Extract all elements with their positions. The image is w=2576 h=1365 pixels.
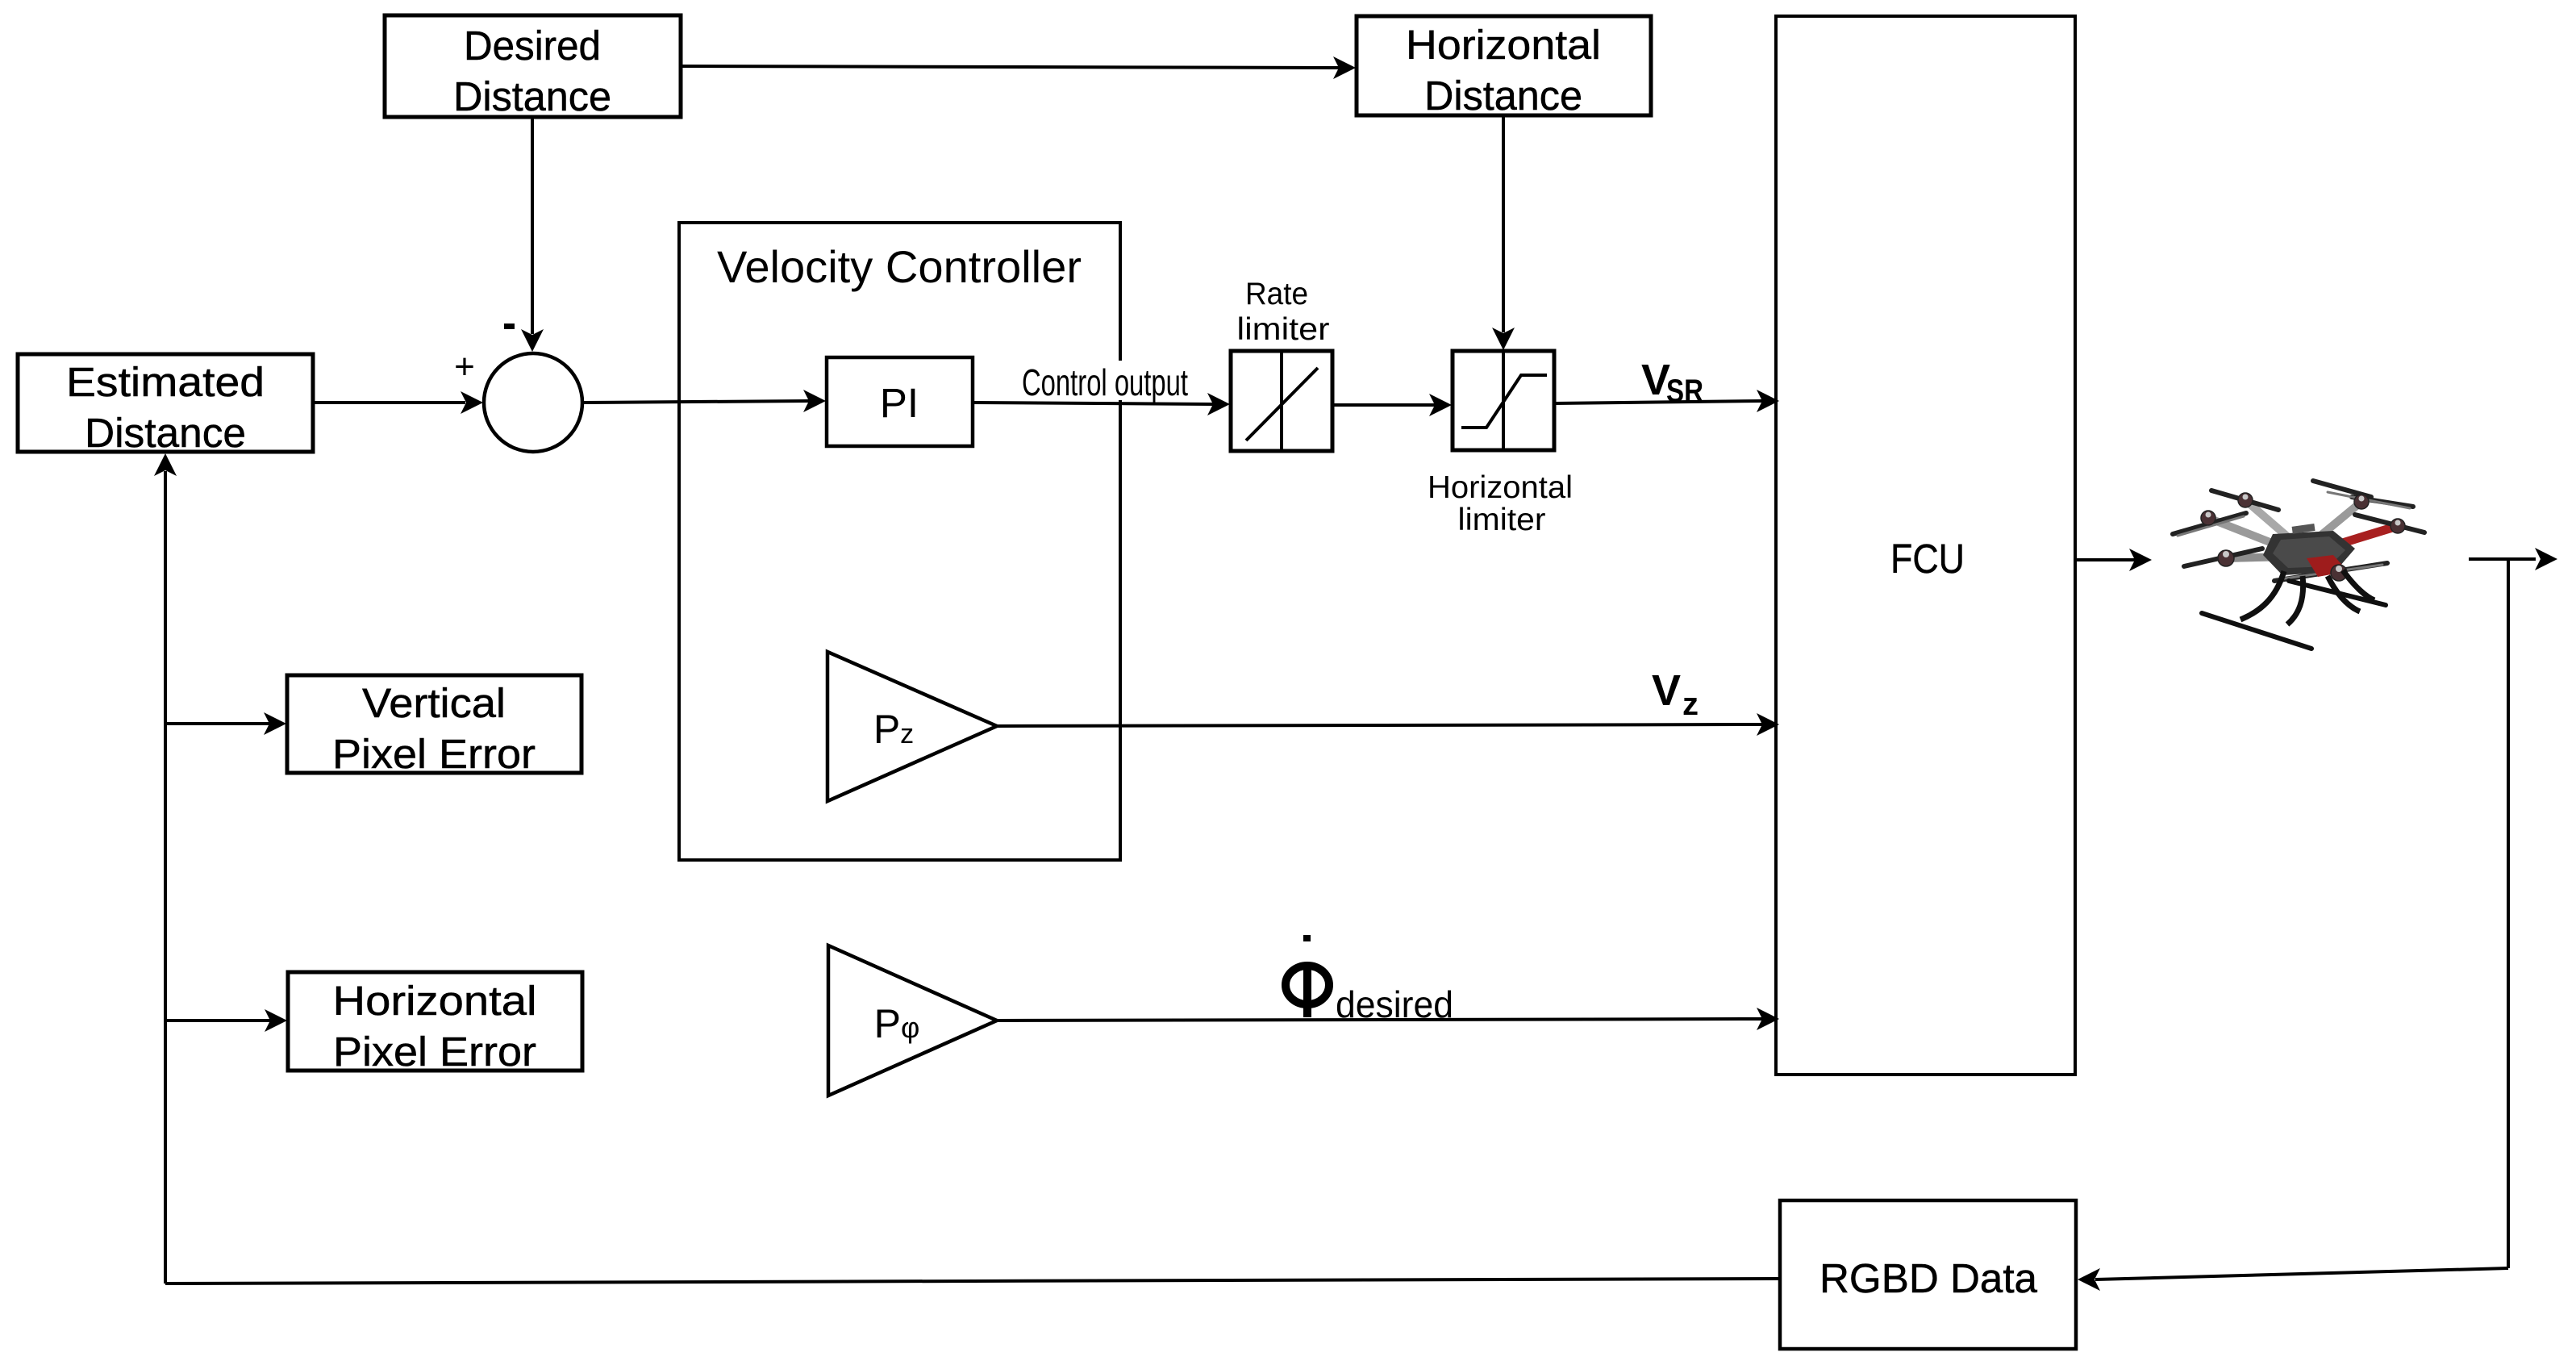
svg-text:Horizontal: Horizontal — [333, 978, 537, 1024]
svg-text:V: V — [1652, 666, 1681, 715]
svg-text:Pixel Error: Pixel Error — [333, 1029, 536, 1075]
svg-text:RGBD Data: RGBD Data — [1819, 1255, 2038, 1301]
svg-text:Desired: Desired — [464, 23, 601, 69]
svg-text:limiter: limiter — [1237, 312, 1330, 347]
svg-text:Estimated: Estimated — [66, 359, 265, 405]
svg-text:Velocity Controller: Velocity Controller — [717, 241, 1082, 292]
svg-text:+: + — [454, 347, 475, 386]
svg-text:z: z — [1682, 687, 1699, 722]
svg-text:Horizontal: Horizontal — [1428, 470, 1573, 505]
svg-text:FCU: FCU — [1890, 536, 1965, 582]
svg-text:Rate: Rate — [1245, 277, 1308, 311]
svg-text:Distance: Distance — [85, 410, 246, 456]
svg-text:SR: SR — [1666, 374, 1703, 409]
svg-text:Distance: Distance — [453, 73, 611, 119]
svg-text:Horizontal: Horizontal — [1406, 22, 1601, 68]
svg-text:Pixel Error: Pixel Error — [332, 731, 536, 777]
svg-text:Vertical: Vertical — [362, 680, 506, 726]
svg-text:Control output: Control output — [1022, 361, 1188, 403]
svg-text:desired: desired — [1336, 983, 1453, 1025]
svg-text:Distance: Distance — [1424, 73, 1582, 119]
svg-text:limiter: limiter — [1458, 503, 1546, 537]
svg-text:PI: PI — [880, 380, 919, 426]
